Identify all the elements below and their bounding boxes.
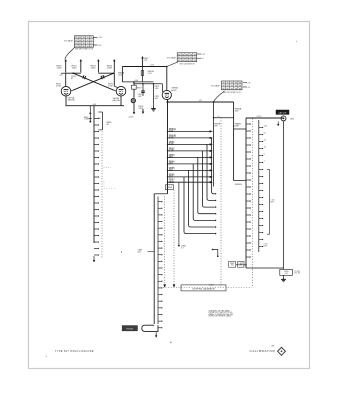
voltage chart table T2 [177,53,197,62]
box left wire [121,67,123,82]
resistor R879 [153,84,155,107]
internal +100 bus [122,81,153,83]
svg-text:88: 88 [190,54,192,56]
resistor R877 on divider [132,85,137,89]
cross-coupling wire plate A to grid B [73,73,114,90]
svg-text:+.5: +.5 [217,116,220,118]
cathode output wire down [167,100,169,194]
svg-text:88: 88 [182,54,184,56]
coupling capacitor mark C872 [103,75,104,78]
divider tap wire R883 [168,156,210,158]
svg-text:88: 88 [79,46,81,48]
svg-text:88: 88 [178,54,180,56]
triode V875B envelope [116,86,126,96]
resistor R889 box [229,261,236,267]
svg-text:+GATE: +GATE [84,118,91,121]
table T1 leader to -150 line [93,44,97,46]
contact arrow row R887 [210,181,213,183]
wire R886A to col S1 top [234,128,246,130]
svg-text:88: 88 [186,60,188,62]
tap drop wire R884 [193,164,215,221]
svg-text:88: 88 [223,85,225,87]
svg-text:+125: +125 [59,74,63,76]
svg-text:SW880: SW880 [209,285,215,287]
svg-text:88: 88 [223,88,225,90]
V875B electrodes [119,89,124,91]
svg-text:6DJ8: 6DJ8 [171,90,177,92]
output bottom wire [246,267,284,269]
R878 wire down arrow [142,109,144,114]
tap drop wire R885 [189,170,215,227]
jack chassis arrow [277,121,279,126]
junction plate A [72,72,74,74]
svg-text:6BQ7A: 6BQ7A [68,99,76,102]
divider tap wire R886 [168,176,210,178]
+225V supply arrow feeding R870 [65,60,67,73]
range bracket 1 mV [267,169,269,234]
svg-text:40K: 40K [235,111,239,113]
resistor R889 stub wire [236,264,246,266]
output wire to CAL OUT network [168,101,234,103]
page number mark [170,342,171,343]
svg-text:88: 88 [235,82,237,84]
switch SW880A ganging dashed line [220,118,222,287]
svg-text:+125: +125 [98,37,102,39]
chopping calibrator dashed net [163,287,252,289]
svg-text:-10: -10 [248,87,251,89]
contact arrow row R883 [210,157,213,159]
table T1 leader to +125 line [93,36,97,38]
capacitor C890 box [280,269,293,275]
svg-text:88: 88 [83,37,85,39]
svg-text:50: 50 [264,132,266,134]
svg-text:88: 88 [235,85,237,87]
contact arrow row R882 [210,150,213,152]
svg-text:R877: R877 [137,88,142,90]
svg-text:88: 88 [83,46,85,48]
svg-text:88: 88 [178,60,180,62]
leader curve from T1 to plate supply [65,47,75,59]
svg-text:+95: +95 [202,54,205,56]
triode V875A envelope [61,86,71,96]
plate bus wire V875B [98,72,114,74]
svg-text:SW865: SW865 [126,329,134,331]
svg-text:88: 88 [79,43,81,45]
switch SW865 label box [122,326,137,331]
svg-text:WITH FLAT SERIES CABLE.: WITH FLAT SERIES CABLE. [209,315,233,318]
switch SW865 wafer 2 cable loop [142,325,158,331]
table T3 leader marks [243,82,247,84]
resistor R866 bracket [102,112,104,130]
svg-text:150K: 150K [57,68,63,70]
svg-text:88: 88 [227,88,229,90]
divider tap wire R884 [168,163,210,165]
svg-text:88: 88 [75,43,77,45]
svg-text:100K: 100K [72,68,78,70]
leader curve to voltage chart T2 [167,62,178,67]
svg-text:88: 88 [79,40,81,42]
switch SW880 ganging dashed line right [252,119,254,288]
ladder bottom wire to SW865 wafer 2 [154,193,167,195]
svg-text:CHOPPING CALIBRATOR: CHOPPING CALIBRATOR [192,287,216,290]
svg-text:88: 88 [87,43,89,45]
svg-text:6BQ7A: 6BQ7A [113,99,121,102]
svg-text:5: 5 [264,153,265,155]
svg-text:88: 88 [87,37,89,39]
switch SW865 wafer 2 return line [157,197,159,325]
switch SW865 wafer 2 pointer arrow [155,332,157,337]
svg-text:88: 88 [178,57,180,59]
svg-text:270K: 270K [108,86,113,88]
svg-text:SW880B: SW880B [235,184,243,186]
tap drop wire R886 [184,177,215,234]
connector J890 CAL OUT jack [281,116,286,121]
contact arrow row R880B [210,137,213,139]
tap drop wire R881 [207,144,215,200]
dashed region corner [104,181,116,189]
contact arrow row R886 [210,176,213,178]
cross-coupling wire plate B to grid A [73,73,114,90]
svg-text:88: 88 [227,85,229,87]
capacitor C880 drop wire [178,182,180,245]
junction plate B [113,72,115,74]
V875A electrodes [64,89,69,91]
svg-text:CKT BD: CKT BD [294,273,301,275]
V885B electrodes [165,92,169,94]
coupling capacitor mark C871 [83,75,84,78]
grid wire to V885 [134,83,162,85]
svg-text:88: 88 [90,46,92,48]
svg-text:SEE CALIBRATION: SEE CALIBRATION [180,62,196,65]
switch SW865 ganging dashed line left [101,132,103,260]
switch SW880D contacts [259,127,262,129]
wafer index dashes [104,166,112,168]
switch SW880D carrier [258,120,260,252]
capacitor C882 stub [213,250,218,256]
+225V supply arrow feeding R873 [97,60,99,73]
svg-text:.001: .001 [138,96,142,98]
switch SW880A contact column [213,102,215,187]
CAL OUT jack ground wire [283,121,285,268]
svg-text:J890: J890 [290,118,294,120]
contact arrow row R885 [210,170,213,172]
svg-text:+0.25: +0.25 [257,116,262,118]
svg-text:150K: 150K [118,75,123,77]
svg-text:10: 10 [264,146,266,148]
ganged dashed link wire A [164,197,166,285]
cathode follower V885B envelope [162,90,171,99]
supply arrow R869 [141,57,143,67]
resistor R886A wire down [233,102,235,181]
svg-text:88: 88 [231,82,233,84]
svg-text:-4: -4 [202,58,204,60]
CAL OUT black label [276,110,289,114]
svg-text:270K: 270K [56,86,61,88]
+125 stub wire [61,72,66,74]
switch SW865 wafer 1 bottom arrow [93,256,95,262]
svg-text:88: 88 [239,82,241,84]
switch SW880C carrier [245,118,247,268]
ground below C890 [283,275,285,278]
svg-text:88: 88 [231,88,233,90]
svg-text:88: 88 [87,40,89,42]
index speck [121,251,122,252]
svg-text:88: 88 [90,43,92,45]
svg-text:+100: +100 [134,80,138,82]
svg-text:88: 88 [231,85,233,87]
svg-text:88: 88 [227,82,229,84]
svg-text:88: 88 [235,88,237,90]
svg-text:100: 100 [264,125,267,127]
svg-text:.005: .005 [155,98,159,100]
cathode rail wire [66,105,125,107]
svg-text:88: 88 [194,54,196,56]
pot wiper to -150V arrow [133,110,135,114]
logo diamond [278,347,286,355]
ganged dashed link wire B [173,190,175,284]
svg-text:CAL OUT: CAL OUT [278,111,287,114]
tap drop wire R880B [212,138,215,194]
svg-text:.001: .001 [284,273,288,275]
svg-text:88: 88 [186,54,188,56]
svg-text:150: 150 [231,265,234,267]
svg-text:88: 88 [186,57,188,59]
svg-text:BLIP: BLIP [235,126,240,128]
switch SW880C contacts [246,123,249,125]
svg-text:88: 88 [75,46,77,48]
svg-text:88: 88 [223,82,225,84]
switch SW865 wafer 1 carrier [93,106,95,243]
resistor R869B [141,67,143,82]
tap drop wire R882 [202,151,214,207]
svg-text:88: 88 [194,57,196,59]
svg-text:88: 88 [90,40,92,42]
svg-text:VOLTAGE: VOLTAGE [167,57,177,60]
svg-text:VOLTAGE: VOLTAGE [64,39,74,42]
ground below R879 [153,107,155,109]
multivibrator output box top wire +225 [122,66,166,68]
divider tap wire R881 [168,143,210,145]
plate bus wire V875A [66,72,81,74]
svg-text:2: 2 [264,160,265,162]
switch SW865 wafer 2 contacts [158,201,161,203]
svg-text:88: 88 [239,85,241,87]
svg-text:R868B: R868B [167,187,173,189]
svg-text:150K: 150K [107,68,113,70]
capacitor C889 box [238,261,244,267]
+225V supply arrow feeding R871 [80,60,82,73]
divider tap wire R882 [168,150,210,152]
contact arrow row R881 [210,144,213,146]
svg-text:+90: +90 [248,82,251,84]
svg-text:88: 88 [75,40,77,42]
wire R886A bottom to col S1 [234,180,246,182]
chopping calibrator label box [181,285,226,291]
svg-text:TYPE 547 OSCILLOSCOPE: TYPE 547 OSCILLOSCOPE [55,349,94,353]
svg-text:100K: 100K [91,68,97,70]
svg-text:20: 20 [264,139,266,141]
svg-text:88: 88 [75,37,77,39]
divider tap wire R885 [168,169,210,171]
svg-text:CAL: CAL [98,117,102,120]
svg-text:88: 88 [87,46,89,48]
svg-text:88: 88 [194,60,196,62]
voltage chart table T1 [74,36,93,47]
svg-text:88: 88 [239,88,241,90]
switch SW865 wafer 2 carrier [153,194,155,324]
switch SW865 wafer 1 contacts [94,118,98,120]
svg-text:88: 88 [79,37,81,39]
CAL OUT wire [246,117,284,119]
divider tap wire R880B [168,137,210,139]
svg-text:620: 620 [138,251,141,253]
divider tap wire R880A [168,130,210,132]
leader curve from T3 to output wire [214,91,225,102]
switch SW880A link wire [214,117,234,119]
potentiometer R876 CAL ADJ [131,98,135,102]
svg-text:88: 88 [190,60,192,62]
svg-text:+62: +62 [199,100,202,102]
contact arrow row R884 [210,163,213,165]
svg-text:VOLTAGE: VOLTAGE [211,85,221,88]
resistor R868B label box [165,185,173,190]
capacitor C876 [142,84,144,91]
svg-text:-150V: -150V [128,117,134,119]
voltage chart table T3 [222,81,243,90]
svg-text:88: 88 [182,57,184,59]
svg-text:4.7K: 4.7K [148,73,153,75]
contact arrow row R880A [210,131,213,133]
svg-text:88: 88 [182,60,184,62]
table T2 leader marks [197,53,202,55]
+225V supply arrow feeding R874 [113,60,115,73]
plate feed wire V885 [166,67,168,91]
svg-text:CALIBRATOR: CALIBRATOR [250,349,276,353]
svg-text:88: 88 [83,43,85,45]
tap drop wire R883 [198,157,215,213]
svg-text:88: 88 [90,37,92,39]
neon B865 current arrows [89,106,91,112]
svg-text:88: 88 [83,40,85,42]
svg-text:-150: -150 [98,45,102,47]
divider tap wire R887 [168,181,210,183]
svg-text:88: 88 [190,57,192,59]
